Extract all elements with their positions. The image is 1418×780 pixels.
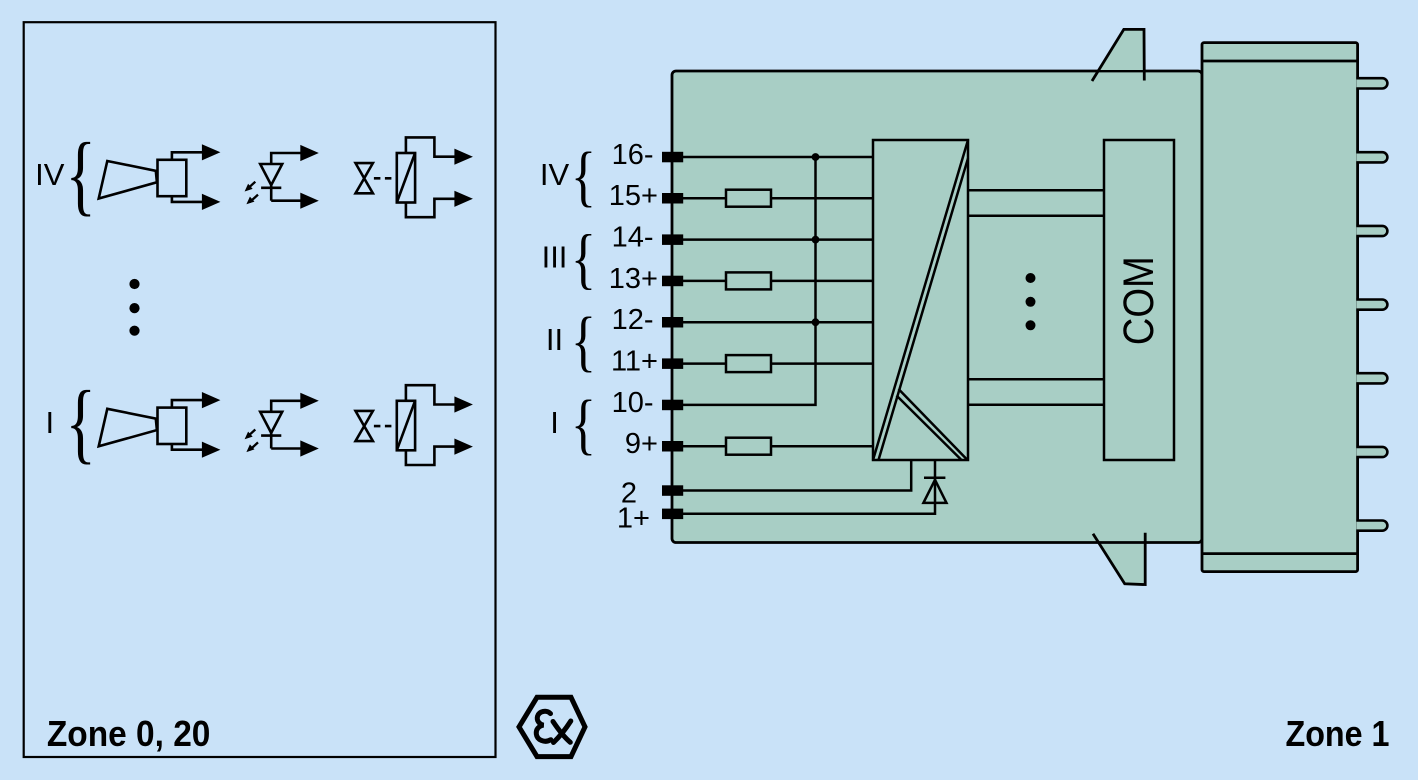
pin c bbox=[1356, 226, 1387, 236]
svg-text:15+: 15+ bbox=[609, 180, 658, 212]
ellipsis dots (module) bbox=[1026, 273, 1036, 330]
terminal 16- bbox=[662, 152, 683, 163]
amp-COM link top pair bbox=[968, 190, 1104, 215]
module top latch bbox=[1092, 29, 1144, 81]
terminal 2 bbox=[662, 485, 683, 496]
wire 12- bbox=[672, 321, 873, 324]
diode bbox=[923, 478, 946, 503]
internal wiring bbox=[672, 157, 935, 514]
svg-text:{: { bbox=[571, 305, 596, 380]
svg-text:I: I bbox=[550, 405, 559, 440]
wire 14- bbox=[672, 238, 873, 241]
svg-text:{: { bbox=[65, 371, 95, 472]
svg-text:COM: COM bbox=[1115, 256, 1163, 345]
svg-text:9+: 9+ bbox=[625, 428, 658, 460]
channel row I field devices bbox=[99, 385, 473, 465]
terminal 11+ bbox=[662, 358, 683, 369]
svg-text:II: II bbox=[546, 322, 563, 357]
wire terminal 1+ to diode bbox=[672, 460, 935, 514]
COM block bbox=[1104, 140, 1174, 460]
svg-text:11+: 11+ bbox=[611, 346, 658, 378]
terminal 1+ bbox=[662, 509, 683, 519]
wire 15+ bbox=[672, 197, 873, 200]
terminal 13+ bbox=[662, 276, 683, 287]
wire 16- bbox=[672, 156, 873, 159]
svg-text:I: I bbox=[45, 405, 54, 440]
terminal 15+ bbox=[662, 193, 683, 204]
svg-text:{: { bbox=[571, 222, 596, 297]
terminal 14- bbox=[662, 234, 683, 245]
connector pins bbox=[1356, 78, 1387, 531]
channel row IV field devices bbox=[99, 137, 473, 217]
resistor channel I bbox=[726, 438, 771, 455]
svg-text:Zone 1: Zone 1 bbox=[1286, 713, 1390, 754]
svg-text:16-: 16- bbox=[612, 139, 654, 171]
bus connector housing bbox=[1202, 43, 1358, 572]
svg-text:{: { bbox=[571, 139, 596, 214]
terminal 10- bbox=[662, 400, 683, 411]
junction 12-/bus bbox=[812, 318, 820, 326]
svg-text:10-: 10- bbox=[612, 387, 654, 419]
module bottom latch bbox=[1093, 533, 1145, 585]
pin g bbox=[1356, 520, 1387, 530]
terminal 12- bbox=[662, 317, 683, 328]
junction 14-/bus bbox=[812, 236, 820, 244]
svg-text:13+: 13+ bbox=[609, 263, 658, 295]
isolated barrier module body bbox=[672, 71, 1202, 543]
svg-text:1+: 1+ bbox=[617, 503, 650, 535]
Ex hexagon logo bbox=[519, 697, 585, 756]
svg-text:{: { bbox=[65, 123, 95, 224]
svg-text:12-: 12- bbox=[612, 304, 654, 336]
svg-text:14-: 14- bbox=[612, 222, 654, 254]
terminal 9+ bbox=[662, 441, 683, 452]
resistor channel II bbox=[726, 355, 771, 372]
wire terminal 2 to amp bbox=[672, 460, 911, 491]
svg-text:IV: IV bbox=[540, 157, 570, 192]
resistor channel IV bbox=[726, 190, 771, 207]
svg-text:Zone 0, 20: Zone 0, 20 bbox=[47, 713, 211, 754]
pin a bbox=[1356, 78, 1387, 88]
isolation amplifier block bbox=[873, 140, 968, 460]
svg-text:III: III bbox=[542, 240, 568, 275]
junction 16-/bus bbox=[812, 153, 820, 161]
pin b bbox=[1356, 152, 1387, 162]
svg-text:IV: IV bbox=[35, 157, 65, 192]
wire 9+ bbox=[672, 445, 873, 448]
amp-COM link bottom pair bbox=[968, 379, 1104, 404]
wire 13+ bbox=[672, 280, 873, 283]
pin d bbox=[1356, 299, 1387, 309]
pin f bbox=[1356, 447, 1387, 457]
pin e bbox=[1356, 373, 1387, 383]
zone 0,20 boundary box bbox=[24, 22, 496, 757]
resistor channel III bbox=[726, 272, 771, 289]
wire 11+ bbox=[672, 362, 873, 365]
svg-text:{: { bbox=[571, 387, 596, 462]
wire 10- bbox=[672, 157, 816, 405]
ellipsis dots (field side) bbox=[129, 279, 139, 336]
